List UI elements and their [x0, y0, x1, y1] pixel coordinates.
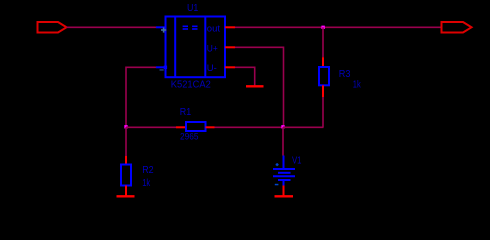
junction node B [281, 125, 284, 128]
wire node B to V1 [282, 127, 284, 155]
svg-text:U1: U1 [187, 2, 199, 14]
wire node B to R3 branch [283, 126, 324, 128]
resistor R2 [121, 156, 154, 196]
svg-text:1k: 1k [142, 178, 151, 189]
minus mark input 2 [160, 69, 164, 71]
ground R2 [117, 195, 135, 197]
wire U+ net [235, 47, 284, 127]
wire out net [235, 26, 441, 28]
wire node A to R2 [125, 127, 127, 156]
plus mark V1 [276, 163, 279, 166]
comparator == symbol [183, 26, 198, 30]
svg-text:K521CA2: K521CA2 [171, 79, 211, 90]
svg-text:U-: U- [207, 63, 217, 74]
pin stub input 2 [156, 66, 165, 68]
junction node A [124, 125, 127, 128]
ground U- [246, 85, 264, 87]
svg-text:R3: R3 [339, 68, 351, 80]
wire U- to ground [235, 67, 255, 85]
svg-text:2965: 2965 [180, 132, 199, 143]
op-amp U1 [156, 2, 235, 90]
svg-text:R1: R1 [180, 106, 192, 118]
battery V1 [273, 156, 302, 197]
pin stub out [225, 26, 235, 28]
svg-text:1k: 1k [353, 80, 362, 91]
wire R1 to node B [215, 126, 284, 128]
wire R3 to node [322, 97, 324, 127]
svg-text:out: out [207, 23, 221, 34]
svg-text:V1: V1 [292, 156, 302, 167]
wire input 2 net [126, 67, 156, 127]
wire out to R3 [322, 27, 324, 57]
wire IN to U1 input 1 [67, 26, 157, 28]
pin stub U+ [225, 46, 235, 48]
port OUT [442, 22, 472, 33]
resistor R3 [319, 57, 362, 97]
junction out/R3 [321, 26, 324, 29]
plus mark input 1 [161, 27, 166, 32]
resistor R1 [176, 106, 215, 143]
body box [166, 17, 226, 78]
minus mark V1 [275, 184, 279, 186]
wire node A to R1 [126, 126, 176, 128]
pin stub U- [225, 66, 235, 68]
svg-text:R2: R2 [142, 164, 154, 176]
ground V1 [275, 195, 294, 197]
pin stub input 1 [156, 26, 165, 28]
port IN [38, 22, 67, 33]
svg-text:U+: U+ [207, 43, 218, 54]
